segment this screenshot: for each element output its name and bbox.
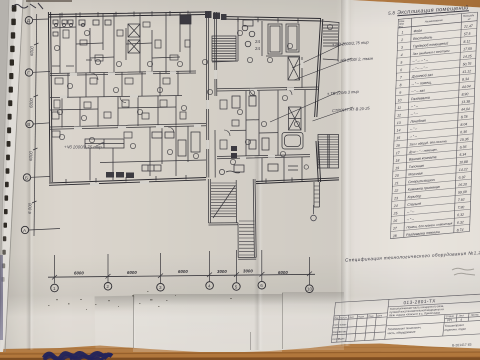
axis leader lines left [29,19,60,230]
explication table [390,10,480,249]
mid band verticals [68,72,178,98]
wood grain streaks [0,340,480,360]
small stair right of bump [314,182,320,207]
spec note under table [345,250,477,262]
top-left pen marks [8,0,48,14]
center rooms tables [212,18,238,62]
X tall boxes center-right [288,57,300,80]
circled item numbers [54,24,332,169]
top edge sliver [26,0,72,2]
stray vertical mark [310,205,322,227]
central wall pair [206,12,208,178]
outer walls [48,12,339,185]
door arcs [91,73,98,80]
faint pencil marks under table [450,264,480,280]
circled 5 + note above bump [219,169,224,174]
left block verticals upper band [60,13,190,73]
upper-left fixtures [53,20,58,24]
top wall ticks [62,11,188,18]
band y97-127 verticals [62,96,176,128]
wardrobe boxes right top [268,24,282,54]
left margin fold crease [26,0,34,350]
vertical fold crease at x=345 [341,0,351,346]
lower rooms right wing [262,157,302,182]
lower vertical crease x~258 [254,155,263,350]
title above table [388,3,480,17]
top right small stair [321,21,339,60]
bottom flap fold [95,296,136,349]
right wing corridors [217,87,318,91]
right wing room verticals [246,90,305,156]
bathtub [282,133,303,150]
lower band [150,126,188,176]
left perforated binding strip [0,0,26,352]
blue scribble bottom-left [42,351,118,360]
axis circles [21,17,313,293]
kitchen block left of stair bump [230,129,246,131]
handwritten note in kitchen [64,143,104,150]
extra fixtures texture [52,22,239,149]
X-boxes upper [128,24,140,37]
right stair block [318,135,339,169]
right margin callout texts [0,0,1,1]
foyer stair top-center [212,36,236,61]
title block [331,293,480,344]
bottom wall ticks [66,175,292,184]
bottom central staircase bump (L-shaped) [208,179,210,223]
left vertical dim line [34,14,37,236]
callout leaders [270,43,353,122]
door openings (eraser gaps) [60,60,302,184]
blue stamp sliver on left edge [0,255,3,340]
bottom dimension line [48,274,315,277]
left block horizontals [50,71,196,76]
top equipment cluster [205,11,227,20]
crease lines bottom [133,295,134,348]
